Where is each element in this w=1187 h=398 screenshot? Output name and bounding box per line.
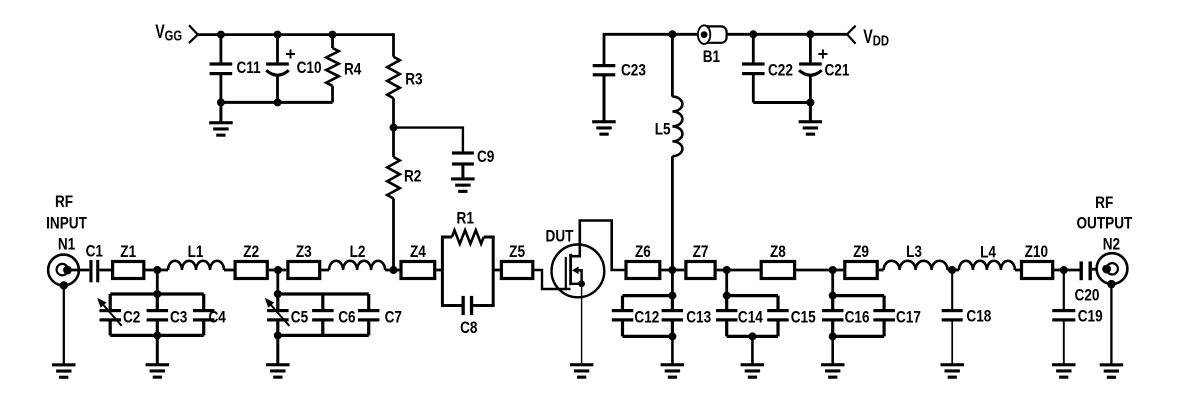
svg-text:C3: C3	[170, 308, 187, 327]
svg-text:C1: C1	[86, 242, 104, 261]
transmission line Z3	[288, 243, 320, 279]
svg-text:RF: RF	[55, 193, 73, 212]
capacitor C5 (variable)	[265, 294, 309, 335]
wire C5 to ground	[276, 335, 279, 364]
capacitor C6	[312, 294, 355, 335]
junction C13 top	[668, 292, 676, 300]
svg-text:L2: L2	[350, 243, 366, 262]
capacitor C17	[873, 296, 921, 337]
wire DUT source to ground	[581, 284, 583, 364]
svg-text:C9: C9	[477, 148, 494, 167]
svg-text:Z7: Z7	[693, 243, 709, 262]
svg-text:C19: C19	[1078, 307, 1103, 326]
transmission line Z4	[401, 243, 435, 279]
wire C13 to ground	[671, 336, 674, 364]
wire Z7 to Z8	[717, 269, 760, 272]
svg-text:C13: C13	[686, 308, 711, 327]
ground (DUT source)	[570, 363, 594, 366]
capacitor C7	[358, 294, 402, 335]
wire C16 to ground	[831, 336, 834, 364]
ground (VGG bypass group)	[209, 102, 233, 136]
svg-text:C4: C4	[209, 308, 227, 327]
resistor R2	[387, 128, 421, 270]
svg-text:L4: L4	[980, 243, 996, 262]
node N2 RF output connector	[1076, 194, 1132, 284]
svg-text:Z6: Z6	[635, 243, 651, 262]
inductor L1	[168, 243, 224, 270]
wire C16/C17 top bus	[833, 294, 884, 297]
capacitor C3	[147, 294, 188, 335]
capacitor C23	[593, 61, 646, 122]
svg-text:Z8: Z8	[770, 243, 786, 262]
ground (C23)	[592, 120, 616, 123]
svg-text:L5: L5	[655, 120, 671, 139]
ground (C14/C15)	[741, 363, 765, 366]
wire C14/C15 bottom bus	[727, 335, 778, 338]
wire L1 to Z2	[224, 269, 234, 272]
junction C13 bottom	[668, 332, 676, 340]
wire junction down to C16	[831, 270, 834, 296]
wire C5/C6/C7 top bus	[278, 292, 369, 295]
wire junction down to C14	[725, 270, 728, 296]
svg-text:C2: C2	[123, 308, 140, 327]
wire C12/C13 top bus	[623, 294, 673, 297]
wire junction to C9	[394, 128, 463, 152]
svg-text:C21: C21	[825, 61, 850, 80]
node N1 RF input connector	[46, 193, 87, 286]
junction C16 bottom	[829, 332, 837, 340]
junction C5 top	[274, 290, 282, 298]
svg-text:Z10: Z10	[1025, 243, 1048, 262]
capacitor C22	[742, 34, 793, 102]
svg-text:C7: C7	[385, 308, 402, 327]
capacitor C18	[942, 270, 992, 364]
junction VDD-L5	[668, 30, 676, 38]
wire C14/C15 to ground	[751, 336, 754, 364]
ground (C18)	[941, 363, 965, 366]
wire R1/C8 to Z5	[493, 269, 500, 272]
wire C2/C3/C4 top bus	[110, 292, 204, 295]
svg-text:INPUT: INPUT	[46, 214, 87, 233]
svg-text:B1: B1	[703, 48, 721, 67]
node Z7/Z8/C14 junction	[723, 266, 731, 274]
inductor L2	[329, 243, 385, 270]
ground (N2)	[1100, 363, 1124, 366]
capacitor C20	[1075, 261, 1100, 304]
junction C5 bottom	[274, 331, 282, 339]
svg-text:C12: C12	[634, 308, 659, 327]
ground (C16/C17)	[821, 363, 845, 366]
svg-text:N2: N2	[1103, 235, 1120, 254]
node L3/L4/C18 junction	[948, 266, 956, 274]
node R2/rail junction	[390, 266, 398, 274]
ground (C5/C6/C7)	[266, 363, 290, 366]
svg-text:DUT: DUT	[546, 227, 574, 246]
capacitor C11	[210, 35, 261, 103]
svg-text:Z5: Z5	[509, 243, 525, 262]
wire VGG bus to R3	[392, 33, 395, 57]
svg-text:Z4: Z4	[410, 243, 426, 262]
wire VGG bus	[198, 33, 394, 36]
svg-text:DD: DD	[873, 32, 890, 49]
svg-text:C14: C14	[738, 308, 763, 327]
resistor R4	[326, 35, 362, 103]
ground (C9)	[451, 177, 475, 180]
junction VGG-R4	[329, 31, 337, 39]
wire N1 to C1	[68, 269, 90, 272]
svg-text:C20: C20	[1075, 286, 1100, 305]
svg-text:Z9: Z9	[853, 243, 869, 262]
wire junction down to C3	[156, 270, 159, 294]
svg-text:R1: R1	[457, 209, 475, 228]
wire Z6 to Z7	[661, 269, 684, 272]
wire L4 to Z10	[1015, 269, 1020, 272]
capacitor C21 (polarized)	[799, 34, 850, 102]
svg-text:C16: C16	[845, 308, 870, 327]
capacitor C15	[767, 296, 816, 337]
junction VGG-C10	[274, 31, 282, 39]
wire Z9 to L3	[879, 269, 884, 272]
inductor L4	[959, 243, 1015, 270]
capacitor C13	[662, 296, 712, 337]
transmission line Z1	[113, 243, 144, 279]
svg-text:C18: C18	[966, 307, 991, 326]
svg-text:OUTPUT: OUTPUT	[1076, 214, 1132, 233]
junction C14 top	[723, 292, 731, 300]
node Z1/L1/C3 junction	[153, 266, 161, 274]
junction C14/C15 ground tap	[748, 332, 756, 340]
junction VGG-C11	[217, 31, 225, 39]
transmission line Z5	[501, 243, 532, 279]
svg-text:R2: R2	[404, 167, 421, 186]
capacitor C16	[822, 296, 870, 337]
node VDD terminal	[847, 26, 889, 49]
wire C3 to ground	[156, 335, 159, 364]
wire C14/C15 top bus	[727, 294, 778, 297]
svg-text:Z3: Z3	[296, 243, 312, 262]
junction C11 bottom	[217, 98, 225, 106]
svg-text:C6: C6	[338, 308, 355, 327]
capacitor C14	[716, 296, 763, 337]
junction C21 bottom	[806, 99, 814, 107]
svg-text:N1: N1	[58, 235, 76, 254]
wire N2 shield to ground	[1110, 284, 1112, 364]
transmission line Z10	[1022, 243, 1053, 279]
junction VDD-C21	[806, 30, 814, 38]
transmission line Z9	[845, 243, 877, 279]
junction C3 bottom	[153, 331, 161, 339]
svg-text:RF: RF	[1095, 194, 1113, 213]
wire Z3 to L2	[321, 269, 329, 272]
svg-text:C15: C15	[791, 308, 816, 327]
wire C2/C3/C4 bottom bus	[110, 334, 204, 337]
junction N1 shield	[60, 281, 68, 289]
wire C22/C21 bottom bus	[753, 101, 810, 104]
junction C16 top	[829, 292, 837, 300]
node R3/R2/C9 junction	[390, 124, 398, 132]
capacitor C10 (polarized)	[266, 35, 321, 103]
inductor L3	[884, 243, 948, 270]
svg-text:C11: C11	[237, 59, 262, 78]
svg-text:Z2: Z2	[243, 243, 259, 262]
wire L2 to Z4	[385, 269, 399, 272]
wire VDD bus (left of B1)	[604, 34, 698, 64]
ferrite bead B1	[698, 25, 727, 66]
node Z10/C19 junction	[1060, 266, 1068, 274]
wire Z4 to R1/C8	[436, 269, 443, 272]
junction C3 top	[153, 290, 161, 298]
transmission line Z7	[686, 243, 715, 279]
wire Z2 to Z3	[269, 269, 286, 272]
junction C10 bottom	[274, 98, 282, 106]
wire C5/C6/C7 bottom bus	[278, 334, 369, 337]
capacitor C19	[1052, 270, 1102, 364]
ground (C19)	[1052, 363, 1076, 366]
ground (C22/C21)	[799, 103, 823, 136]
svg-text:C8: C8	[460, 319, 478, 338]
svg-text:R3: R3	[405, 70, 422, 89]
svg-text:C5: C5	[291, 308, 309, 327]
wire junction down to C5	[276, 270, 279, 294]
ground (C2/C3/C4)	[146, 363, 170, 366]
capacitor C9	[452, 148, 494, 179]
node VGG terminal	[155, 21, 198, 44]
resistor R1 (parallel branch top)	[441, 209, 494, 307]
node Z2/Z3/C5 junction	[274, 266, 282, 274]
transistor DUT (MOSFET)	[546, 221, 625, 298]
wire N1 shield to ground	[63, 285, 65, 364]
svg-text:C23: C23	[621, 61, 646, 80]
svg-text:GG: GG	[165, 27, 183, 44]
wire junction down to C13	[671, 270, 674, 296]
wire VGG group bottom bus	[221, 101, 333, 104]
inductor L5	[655, 34, 683, 270]
transmission line Z6	[626, 243, 660, 279]
wire Z1 to L1	[145, 269, 168, 272]
transmission line Z2	[235, 243, 267, 279]
wire C1 to Z1	[99, 269, 112, 272]
wire Z8 to Z9	[796, 269, 843, 272]
svg-text:V: V	[863, 26, 873, 47]
svg-text:L1: L1	[188, 243, 204, 262]
svg-text:C22: C22	[768, 61, 793, 80]
resistor R3	[387, 57, 422, 128]
wire Z5 to DUT gate	[534, 270, 570, 289]
capacitor C12	[612, 296, 660, 337]
junction VDD-C22	[749, 30, 757, 38]
capacitor C4	[193, 294, 226, 335]
ground (N1)	[52, 363, 76, 366]
svg-text:C10: C10	[297, 59, 322, 78]
capacitor C1	[86, 242, 104, 282]
junction N2 shield	[1107, 280, 1115, 288]
node Z8/Z9/C16 junction	[829, 266, 837, 274]
svg-text:R4: R4	[344, 60, 362, 79]
wire C20 to N2	[1092, 268, 1098, 271]
svg-text:C17: C17	[896, 308, 921, 327]
svg-text:L3: L3	[906, 243, 922, 262]
ground (C12/C13)	[661, 363, 685, 366]
capacitor C8 (parallel branch bottom)	[441, 296, 494, 338]
wire C12/C13 bottom bus	[623, 335, 673, 338]
capacitor C2 (variable)	[97, 294, 140, 335]
wire Z10 to C20	[1054, 269, 1079, 272]
transmission line Z8	[761, 243, 794, 279]
wire C16/C17 bottom bus	[833, 335, 884, 338]
svg-text:Z1: Z1	[120, 243, 136, 262]
node L5/C13 rail junction	[668, 266, 676, 274]
wire L3 to L4	[948, 269, 959, 272]
wire VDD bus (right of B1)	[727, 33, 847, 36]
